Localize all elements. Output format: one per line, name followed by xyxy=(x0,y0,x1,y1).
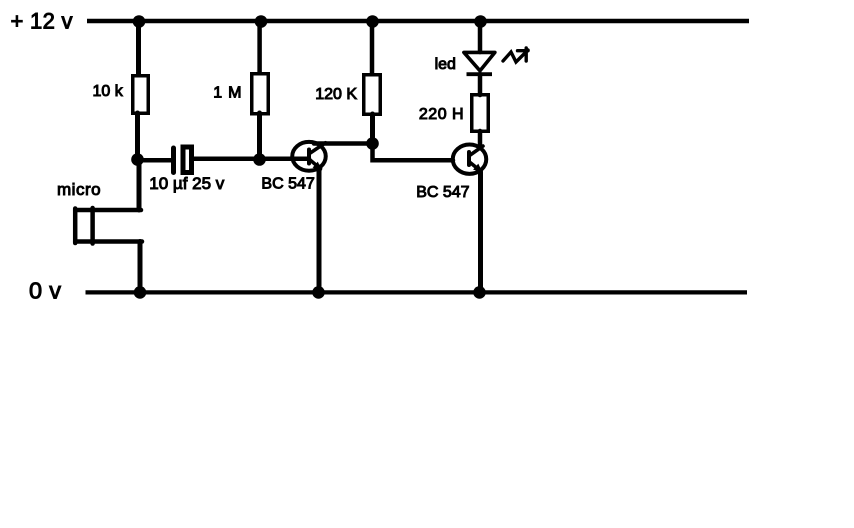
+12V rail xyxy=(87,19,749,24)
LED emission arrow xyxy=(503,48,528,62)
microphone MIC1 xyxy=(75,208,142,244)
wire LED cathode to R4 xyxy=(478,74,483,95)
wire rail to LED anode xyxy=(478,21,483,52)
wire R1 to node A xyxy=(135,113,140,160)
svg-text:10 k: 10 k xyxy=(93,83,124,100)
wire rail to R3 xyxy=(370,21,375,74)
wire Q2 emitter to 0V rail xyxy=(478,172,483,292)
wire node B to Q2 base xyxy=(373,145,454,160)
resistor R3 120K xyxy=(364,75,381,115)
wire R4 to Q2 collector xyxy=(478,131,483,146)
svg-text:0 v: 0 v xyxy=(29,277,61,303)
capacitor C1 10uF (polarized) xyxy=(174,147,192,173)
wire Q1 collector to node B xyxy=(314,141,373,146)
wire Q1 emitter to 0V rail xyxy=(317,167,322,292)
transistor Q1 BC547 xyxy=(292,142,326,171)
wire capacitor to Q1 base xyxy=(194,156,309,161)
node: R2/base junction xyxy=(253,153,266,166)
wire R3 to node B xyxy=(370,114,375,146)
LED D1 xyxy=(464,52,495,74)
wire node A to microphone xyxy=(137,160,142,210)
resistor R4 220H xyxy=(472,95,489,132)
resistor R1 10k xyxy=(133,76,149,114)
node: 0V junction Q1 emitter xyxy=(312,286,325,299)
svg-text:120 K: 120 K xyxy=(315,86,357,103)
svg-text:10 µf 25 v: 10 µf 25 v xyxy=(149,174,225,193)
svg-text:micro: micro xyxy=(57,180,101,199)
wire microphone to 0V rail xyxy=(138,242,143,293)
svg-text:+ 12 v: + 12 v xyxy=(11,8,73,33)
resistor R2 1M xyxy=(252,74,269,114)
svg-text:led: led xyxy=(435,56,456,73)
svg-text:BC 547: BC 547 xyxy=(261,175,314,192)
node: 0V junction Q2 emitter xyxy=(473,286,486,299)
node: 0V junction micro xyxy=(134,286,147,299)
wire node A to capacitor xyxy=(138,158,172,163)
node: rail junction col2 xyxy=(255,15,268,28)
svg-text:BC 547: BC 547 xyxy=(416,184,469,201)
node A junction xyxy=(131,153,144,166)
0V rail xyxy=(86,290,748,294)
node: rail junction col1 xyxy=(133,15,146,28)
wire rail to R1 xyxy=(136,21,141,75)
node: rail junction col3 xyxy=(366,15,379,28)
transistor Q2 BC547 xyxy=(453,145,487,174)
wire R2 to Q1 base wire xyxy=(257,113,262,160)
svg-text:1 M: 1 M xyxy=(213,85,242,102)
node B junction xyxy=(366,137,379,150)
svg-text:220 H: 220 H xyxy=(419,106,464,123)
node: rail junction col4 xyxy=(474,15,487,28)
wire rail to R2 xyxy=(257,21,262,73)
